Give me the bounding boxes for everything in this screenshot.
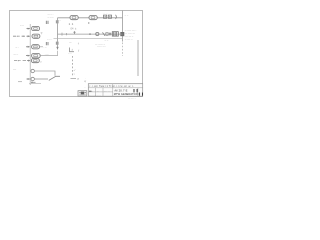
- svg-text:цг: цг: [84, 80, 86, 83]
- svg-text:04 ±: 04 ±: [71, 27, 77, 31]
- svg-text:MTW GENERATION ▌▐: MTW GENERATION ▌▐: [114, 92, 143, 96]
- svg-text:▬..: ▬..: [89, 89, 93, 92]
- svg-text:11: 11: [69, 22, 75, 26]
- svg-text:-- -: -- -: [16, 46, 19, 49]
- svg-text:- --: - --: [58, 20, 61, 22]
- svg-text:....: ....: [104, 90, 107, 92]
- svg-text:- --: - --: [44, 46, 47, 49]
- svg-text:‹M 20.7 E ▌▐: ‹M 20.7 E ▌▐: [114, 88, 138, 92]
- svg-text:-- --: -- --: [20, 24, 24, 27]
- svg-text:-- -----: -- -----: [48, 17, 54, 19]
- svg-text:⌜⌜: ⌜⌜: [70, 42, 72, 45]
- svg-text:----: ----: [13, 68, 16, 71]
- svg-text:--- --: --- --: [14, 53, 19, 56]
- svg-text:.. ..: .. ..: [103, 11, 108, 14]
- svg-text:-- --: -- --: [105, 40, 109, 43]
- svg-text:- ---: - ---: [45, 53, 49, 56]
- svg-text:... ... ... ... ..: ... ... ... ... ..: [89, 94, 101, 96]
- svg-text:--- ---- --: --- ---- --: [128, 98, 136, 100]
- svg-text:r..i .wir. Tww.r ir Tr.wr. i.r: r..i .wir. Tww.r ir Tr.wr. i.r rw .wr .w…: [90, 85, 135, 88]
- svg-text:-- -- -: -- -- -: [47, 39, 52, 41]
- svg-text:------ ----: ------ ----: [97, 46, 106, 49]
- svg-text:-- ---- --: -- ---- --: [125, 38, 133, 41]
- svg-text:-- --: -- --: [68, 54, 72, 56]
- svg-text:-- --: -- --: [125, 14, 129, 17]
- svg-text:?’: ?’: [41, 32, 44, 36]
